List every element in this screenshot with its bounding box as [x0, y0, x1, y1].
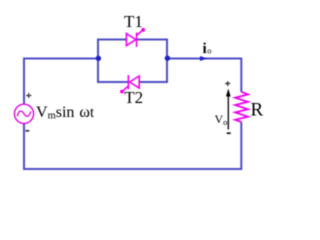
AC source circle [14, 104, 33, 123]
svg-text:T1: T1 [124, 12, 143, 31]
svg-text:i: i [203, 41, 207, 57]
wire: top main line left segment [23, 58, 98, 60]
node: right junction dot [165, 56, 170, 61]
resistor R zigzag [235, 92, 248, 122]
v_o minus [227, 132, 231, 134]
wire: bottom branch (T2) segments [97, 81, 168, 83]
source plus sign [26, 93, 31, 98]
v_o plus [225, 81, 230, 86]
wire: left vertical of outer loop [23, 59, 25, 170]
AC source sine wave [17, 111, 30, 116]
wire: top branch (T1) segments [97, 39, 168, 41]
node: left junction dot [96, 56, 101, 61]
wire: right vertical above resistor [240, 58, 242, 93]
wire: parallel-branch left vertical [97, 39, 99, 82]
wire: top main line right segment [167, 58, 242, 60]
thyristor T2 [120, 75, 139, 94]
wire: parallel-branch right vertical [166, 39, 168, 82]
voltage arrow v_o [227, 96, 229, 130]
svg-text:R: R [251, 100, 264, 121]
wire: right vertical below resistor [240, 122, 242, 170]
thyristor T1 [126, 28, 145, 47]
wire: bottom of outer loop [23, 168, 242, 170]
svg-text:Vo: Vo [215, 112, 228, 127]
svg-text:Vmsinωt: Vmsinωt [36, 104, 94, 122]
svg-text:T2: T2 [124, 88, 143, 107]
current arrow i_o [200, 56, 207, 61]
source minus sign [26, 130, 30, 132]
svg-text:o: o [207, 45, 211, 55]
